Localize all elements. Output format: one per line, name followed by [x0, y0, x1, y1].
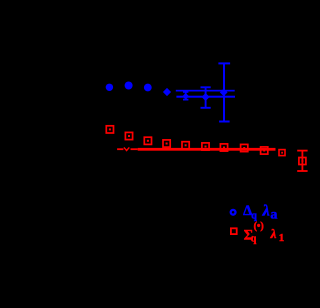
red dashed line segment 2 — [131, 148, 138, 150]
svg-text:λ: λ — [270, 226, 277, 241]
legend blue open circle — [231, 210, 236, 215]
red dashed line segment 1 — [117, 148, 123, 150]
red fit line — [138, 148, 276, 151]
red square R9 — [261, 147, 268, 154]
blue point B: filled diamond — [202, 93, 210, 101]
red square R2 — [125, 132, 132, 139]
red square R1 — [106, 126, 113, 133]
svg-text:a: a — [270, 208, 277, 223]
red square R4 — [163, 140, 170, 147]
blue horizontal line upper (y=90.6) — [176, 90, 235, 92]
blue horizontal line lower (y=96.7) — [176, 96, 235, 98]
red point R11: error bar — [297, 151, 307, 171]
blue series: filled circle point 2 — [125, 82, 133, 90]
svg-text:λ: λ — [262, 203, 270, 220]
red square R5 — [182, 142, 189, 149]
red v marker — [124, 147, 129, 150]
blue point B: error bar — [201, 87, 211, 108]
blue point C: filled diamond — [220, 89, 228, 97]
legend red open square — [231, 228, 237, 234]
svg-text:q: q — [251, 234, 257, 245]
red square R3 — [144, 137, 151, 144]
legend blue label Delta_q lambda_a — [243, 203, 277, 223]
red square R8 — [241, 144, 248, 151]
red square R7 — [220, 144, 227, 151]
blue series: filled circle point 1 — [106, 84, 113, 91]
red square R10 — [279, 150, 285, 156]
svg-text:(•): (•) — [254, 221, 264, 232]
svg-text:1: 1 — [279, 232, 285, 244]
blue point A: filled diamond — [182, 93, 189, 100]
blue point C: error bar — [218, 63, 230, 121]
blue series: filled circle point 3 — [144, 84, 152, 92]
legend red label Sigma_q^(*) lambda_1 — [244, 221, 285, 245]
blue series: filled diamond point 4 — [163, 88, 171, 96]
red square R11 — [299, 158, 306, 165]
red square R6 — [202, 143, 209, 150]
blue point A: error bar — [183, 92, 188, 100]
